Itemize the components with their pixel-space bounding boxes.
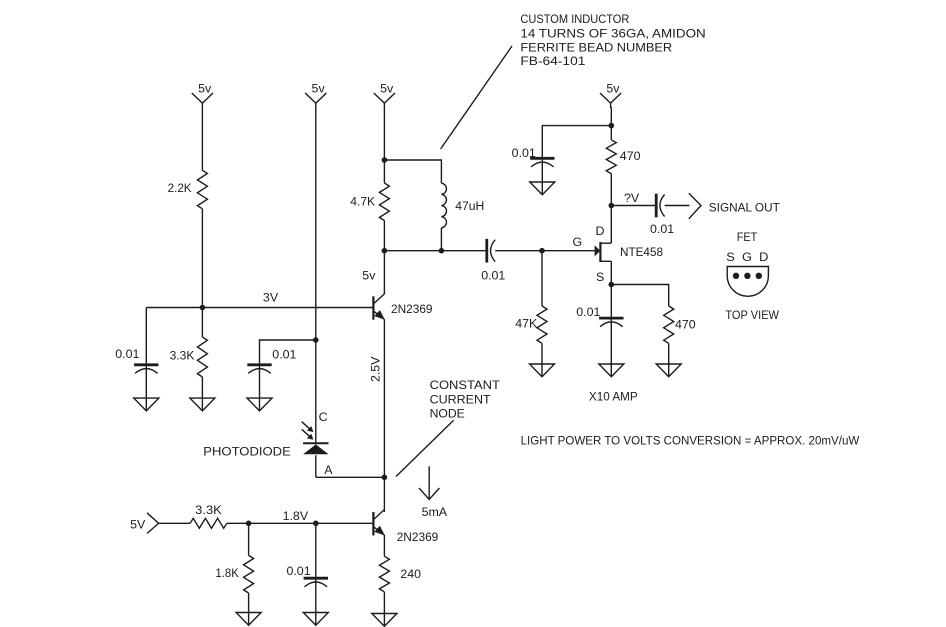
resistor 3.3K (input) xyxy=(190,503,227,528)
note LIGHT POWER conversion xyxy=(521,434,860,448)
svg-text:0.01: 0.01 xyxy=(115,347,139,361)
ground under source bypass cap xyxy=(599,364,624,377)
svg-text:4.7K: 4.7K xyxy=(350,194,376,208)
svg-text:0.01: 0.01 xyxy=(272,348,296,362)
power +5v supply (photodiode rail) xyxy=(305,81,326,108)
capacitor 0.01 (left bypass) xyxy=(115,347,158,398)
svg-text:NTE458: NTE458 xyxy=(620,245,663,259)
power +5v supply (2.2K bias rail) xyxy=(192,81,213,108)
svg-text:D: D xyxy=(596,224,605,238)
wire photodiode anode to constant current node xyxy=(316,476,385,478)
junction drain rail / bypass tap xyxy=(609,123,615,129)
svg-text:G: G xyxy=(573,235,583,249)
junction constant current node xyxy=(382,475,388,481)
svg-text:LIGHT POWER TO VOLTS CONVERSIO: LIGHT POWER TO VOLTS CONVERSION = APPROX… xyxy=(521,434,860,448)
svg-text:S: S xyxy=(596,270,604,284)
svg-text:3V: 3V xyxy=(263,291,279,305)
svg-text:5mA: 5mA xyxy=(422,505,448,519)
svg-text:5v: 5v xyxy=(606,81,620,95)
svg-text:2N2369: 2N2369 xyxy=(397,530,439,544)
junction ?V node xyxy=(609,203,615,209)
inductor 47uH xyxy=(441,183,484,228)
wire 5v to photodiode cathode xyxy=(315,107,317,443)
svg-text:0.01: 0.01 xyxy=(481,269,505,283)
junction 4.7K bottom xyxy=(382,248,388,254)
note CONSTANT CURRENT NODE xyxy=(430,378,501,421)
resistor 47K xyxy=(515,306,547,343)
resistor 1.8K xyxy=(215,555,253,593)
svg-text:PHOTODIODE: PHOTODIODE xyxy=(203,445,290,459)
svg-text:3.3K: 3.3K xyxy=(195,503,222,517)
wire 47K to ground xyxy=(541,343,543,364)
capacitor 0.01 (source bypass) xyxy=(576,305,623,364)
svg-text:5v: 5v xyxy=(362,269,376,283)
wire source node to 470 branch xyxy=(611,285,668,307)
resistor 3.3K (bias divider lower) xyxy=(170,337,208,377)
wire 4.7K rail xyxy=(383,160,385,183)
power +5v supply (FET drain rail) xyxy=(600,81,621,108)
label S G D xyxy=(726,250,768,264)
transistor Q1 2N2369 xyxy=(373,294,432,320)
wire cap tap horizontal xyxy=(260,340,316,365)
note CUSTOM INDUCTOR xyxy=(520,12,705,68)
capacitor 0.01 (coupling to gate) xyxy=(481,239,505,283)
current arrow 5mA xyxy=(419,466,448,519)
svg-text:5v: 5v xyxy=(198,81,212,95)
junction 2.2K/3.3K at 3V node xyxy=(200,305,206,311)
wire tap to base cap xyxy=(315,523,317,578)
label ?V xyxy=(624,191,640,205)
label FET xyxy=(737,230,758,244)
wire inductor top xyxy=(384,160,441,183)
svg-text:470: 470 xyxy=(675,318,696,332)
label X10 AMP xyxy=(589,390,638,404)
ground under 240 xyxy=(372,614,397,627)
wire ?V node to output cap xyxy=(611,205,655,207)
FET package outline (top view) xyxy=(727,267,768,297)
wire bypass tap horizontal xyxy=(542,126,611,159)
capacitor 0.01 (supply bypass) xyxy=(512,146,555,182)
junction photodiode rail / 0.01 cap tap xyxy=(313,337,319,343)
svg-text:C: C xyxy=(319,410,328,424)
junction inductor tap top xyxy=(382,157,388,163)
junction source node xyxy=(609,282,615,288)
junction 1.8K tap xyxy=(246,521,252,527)
pin label G xyxy=(573,235,583,249)
svg-text:0.01: 0.01 xyxy=(512,146,536,160)
svg-text:0.01: 0.01 xyxy=(650,222,674,236)
transistor Q2 2N2369 xyxy=(373,510,438,544)
svg-text:2N2369: 2N2369 xyxy=(391,302,433,316)
wire source 470 to ground xyxy=(668,343,670,364)
label TOP VIEW xyxy=(725,308,779,322)
capacitor 0.01 (photodiode bypass) xyxy=(247,348,296,399)
photodiode D1 xyxy=(303,443,328,477)
svg-text:2.2K: 2.2K xyxy=(168,181,193,195)
svg-text:5V: 5V xyxy=(130,518,146,532)
wire 3V node down to left 0.01 cap xyxy=(145,308,147,365)
junction base cap tap xyxy=(313,521,319,527)
wire 2.2K to 3V node xyxy=(201,209,203,308)
JFET U1 NTE458 xyxy=(595,242,663,262)
label 2.5V (rotated) xyxy=(368,356,382,382)
svg-text:1.8V: 1.8V xyxy=(283,509,309,523)
svg-text:1.8K: 1.8K xyxy=(215,566,239,580)
svg-text:S G D: S G D xyxy=(726,250,768,264)
svg-text:5v: 5v xyxy=(380,81,394,95)
svg-text:FET: FET xyxy=(737,230,758,244)
svg-text:240: 240 xyxy=(400,567,421,581)
wire coupling cap to gate xyxy=(495,250,595,252)
wire tap to 1.8K xyxy=(248,523,250,555)
ground under left 0.01 cap xyxy=(134,398,159,411)
connector 5V input xyxy=(130,513,158,534)
ground under 1.8K xyxy=(236,613,261,626)
ground under source 470 xyxy=(656,364,681,377)
svg-text:CONSTANT: CONSTANT xyxy=(430,378,501,392)
svg-text:TOP VIEW: TOP VIEW xyxy=(725,308,779,322)
svg-text:FERRITE BEAD NUMBER: FERRITE BEAD NUMBER xyxy=(520,40,672,54)
wire 1.8K to ground xyxy=(248,593,250,613)
callout line to constant current node xyxy=(396,420,454,476)
wire 3.3K to Q2 base xyxy=(227,522,374,524)
capacitor 0.01 (output coupling) xyxy=(650,194,674,237)
ground under photodiode bypass cap xyxy=(247,398,272,411)
svg-text:CUSTOM INDUCTOR: CUSTOM INDUCTOR xyxy=(520,12,629,26)
svg-text:A: A xyxy=(324,463,333,477)
wire FET drain up to ?V node xyxy=(610,206,612,244)
node 3V label xyxy=(263,291,279,305)
node C label xyxy=(319,410,328,424)
wire collector node to coupling cap xyxy=(384,250,485,252)
wire 5v to 2.2K xyxy=(201,107,203,170)
wire 470 to 5v tap xyxy=(610,107,612,140)
svg-text:0.01: 0.01 xyxy=(576,305,600,319)
svg-text:FB-64-101: FB-64-101 xyxy=(520,54,585,68)
resistor 470 (drain load) xyxy=(606,140,640,174)
power +5v supply (4.7K / inductor rail) xyxy=(374,81,395,108)
wire ?V node to 470 xyxy=(610,174,612,206)
label 5v at Q1 collector xyxy=(362,269,376,283)
svg-text:2.5V: 2.5V xyxy=(368,356,382,382)
resistor 240 xyxy=(379,556,421,592)
ground under 3.3K xyxy=(190,398,215,411)
ground under supply bypass cap xyxy=(530,182,555,195)
wire output cap to connector xyxy=(665,205,690,207)
ground under base bypass cap xyxy=(303,613,328,626)
svg-text:SIGNAL OUT: SIGNAL OUT xyxy=(709,200,780,214)
wire gate node to 47K xyxy=(541,251,543,306)
svg-text:14 TURNS OF 36GA, AMIDON: 14 TURNS OF 36GA, AMIDON xyxy=(520,26,705,40)
callout line to custom inductor note xyxy=(441,46,512,149)
wire collector node to Q1 xyxy=(383,251,385,295)
svg-text:X10 AMP: X10 AMP xyxy=(589,390,638,404)
svg-text:?V: ?V xyxy=(624,191,640,205)
wire FET source down xyxy=(610,261,612,318)
wire 240 to ground xyxy=(383,592,385,614)
svg-text:470: 470 xyxy=(620,149,641,163)
pin label D xyxy=(596,224,605,238)
light arrows into photodiode xyxy=(302,422,314,440)
capacitor 0.01 (base bypass) xyxy=(286,564,328,613)
svg-text:3.3K: 3.3K xyxy=(170,349,196,363)
wire inductor bottom xyxy=(440,228,442,251)
wire Q2 emitter to 240 xyxy=(383,535,385,556)
wire Q1 emitter down xyxy=(383,319,385,477)
wire 3V node horizontal xyxy=(146,307,373,309)
node A label xyxy=(324,463,333,477)
resistor 470 (source) xyxy=(664,306,696,343)
connector SIGNAL OUT xyxy=(689,193,780,219)
svg-text:47uH: 47uH xyxy=(455,199,484,213)
wire 3V node to 3.3K xyxy=(201,308,203,338)
wire input to 3.3K xyxy=(159,522,191,524)
wire constant current node to Q2 collector xyxy=(383,477,385,512)
svg-text:5v: 5v xyxy=(312,81,326,95)
junction gate / 47K xyxy=(539,248,545,254)
svg-text:NODE: NODE xyxy=(430,407,465,421)
node 1.8V label xyxy=(283,509,309,523)
svg-text:47K: 47K xyxy=(515,316,538,330)
pin label S xyxy=(596,270,604,284)
wire 5v to inductor tap xyxy=(383,107,385,160)
wire 3.3K to ground xyxy=(201,377,203,398)
label PHOTODIODE xyxy=(203,445,290,459)
resistor 2.2K xyxy=(168,170,208,209)
junction inductor bottom xyxy=(439,248,445,254)
svg-text:0.01: 0.01 xyxy=(286,564,310,578)
ground under 47K xyxy=(530,364,555,377)
resistor 4.7K xyxy=(350,183,389,221)
svg-text:CURRENT: CURRENT xyxy=(430,392,491,406)
wire 4.7K to collector node xyxy=(383,221,385,251)
